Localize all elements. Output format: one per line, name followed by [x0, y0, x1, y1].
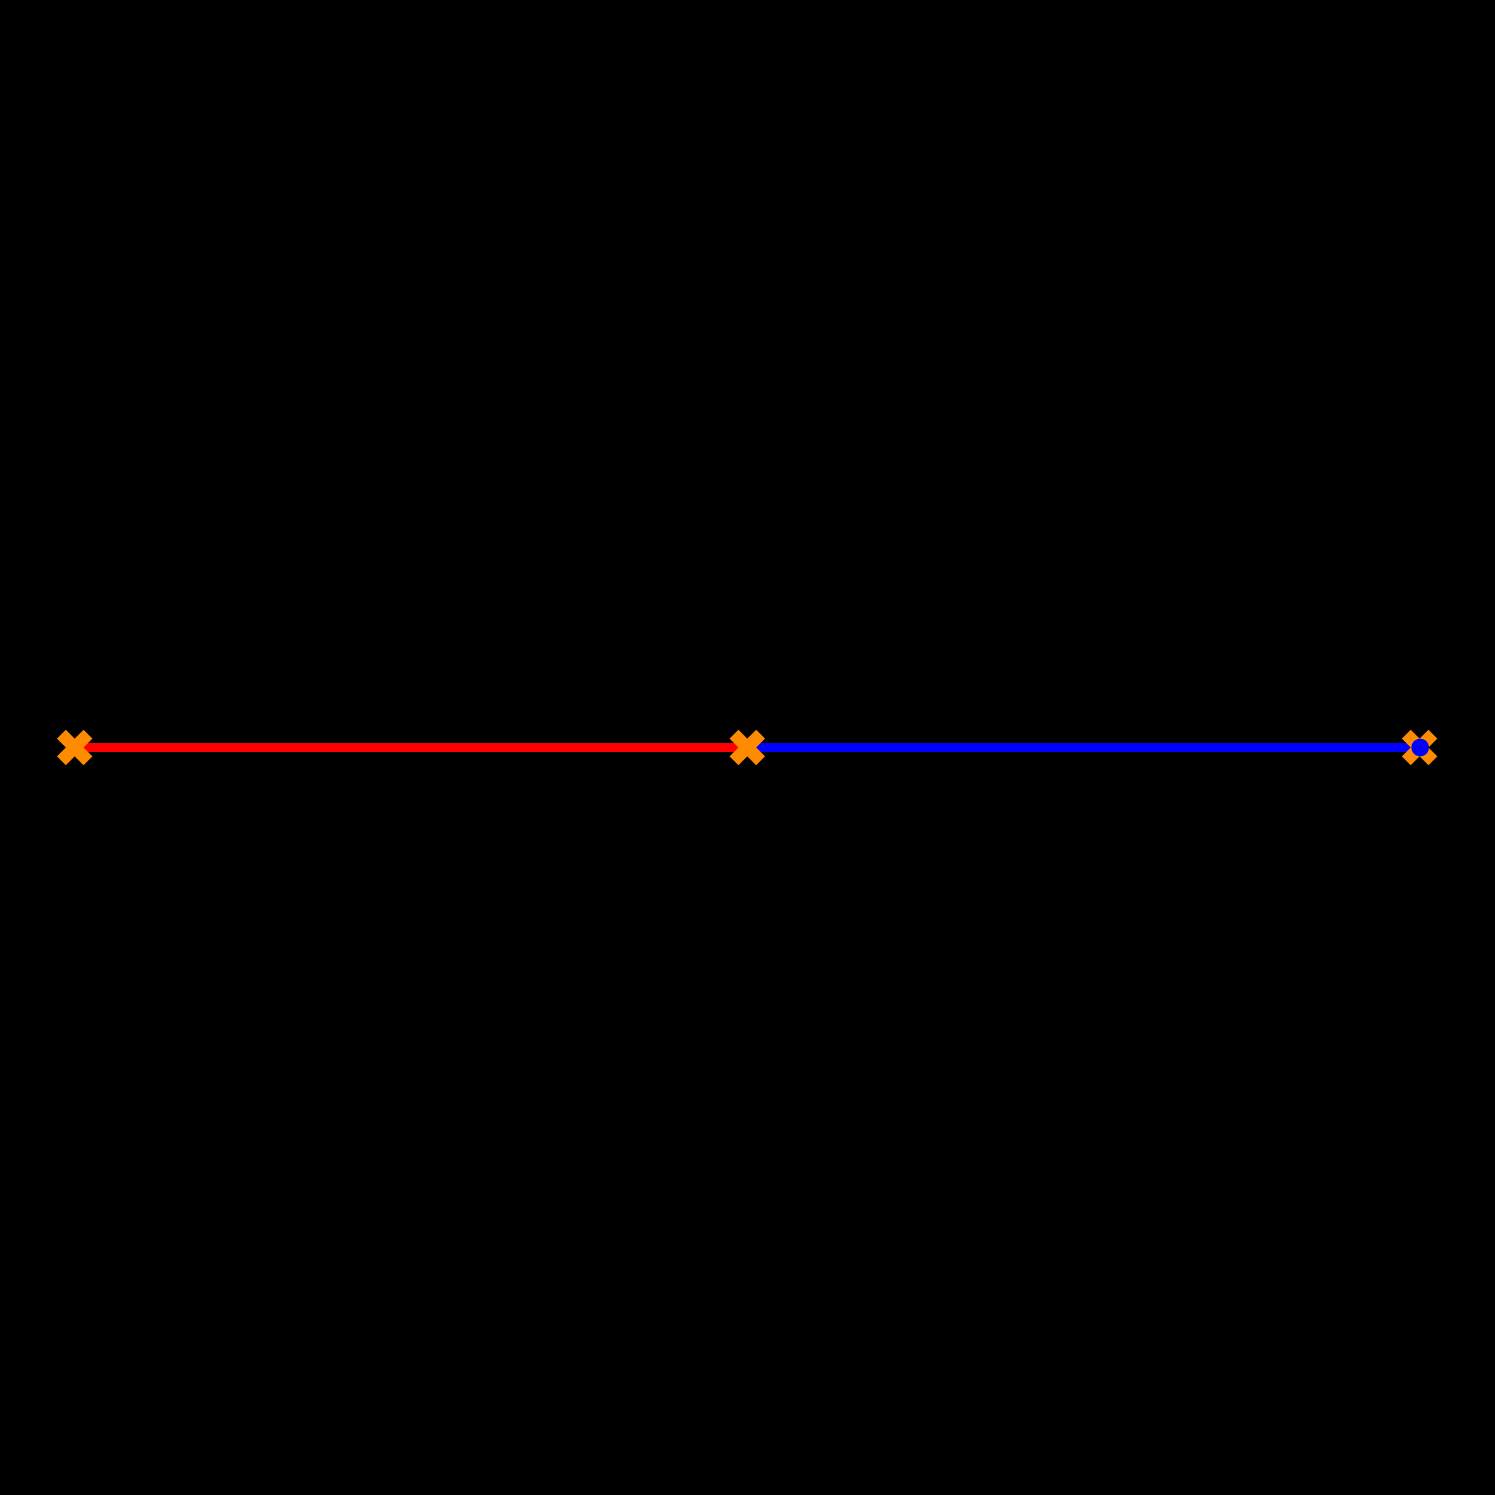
node C orange X marker right	[1402, 730, 1438, 766]
wire red segment left-half	[75, 743, 748, 752]
wire blue segment right-half	[748, 743, 1421, 752]
node A orange X marker left	[57, 730, 93, 766]
blue dot endpoint marker	[1411, 739, 1429, 757]
node B orange X marker middle	[730, 730, 766, 766]
